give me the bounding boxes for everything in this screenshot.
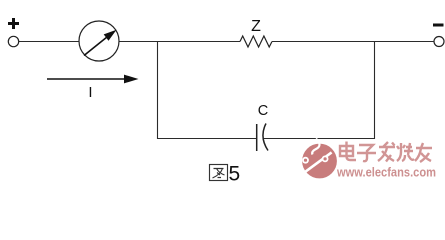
svg-text:5: 5 bbox=[229, 163, 241, 186]
svg-text:Z: Z bbox=[251, 18, 261, 35]
svg-text:www.elecfans.com: www.elecfans.com bbox=[336, 166, 436, 180]
svg-text:C: C bbox=[258, 103, 268, 119]
svg-text:I: I bbox=[88, 84, 92, 101]
